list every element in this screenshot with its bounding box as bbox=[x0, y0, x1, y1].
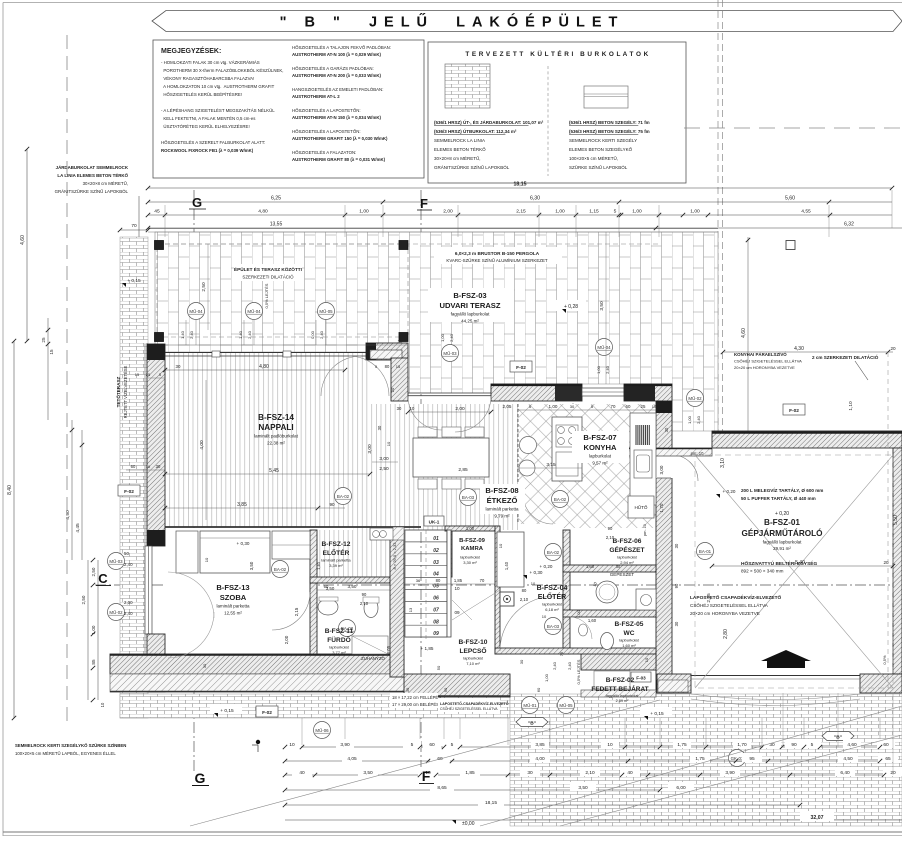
svg-text:3,90: 3,90 bbox=[340, 742, 350, 748]
dim room edges row mid bbox=[317, 589, 390, 591]
dim nappali 5,45 bbox=[165, 473, 370, 475]
furdo shower bbox=[352, 636, 388, 654]
label konyha bbox=[572, 431, 629, 463]
svg-text:F-02: F-02 bbox=[789, 408, 799, 414]
svg-text:ELŐTÉR: ELŐTÉR bbox=[323, 548, 350, 557]
svg-text:2,00: 2,00 bbox=[124, 600, 133, 605]
dim nappali vertical 4,00 bbox=[205, 380, 207, 520]
marker MU-03 west bbox=[108, 553, 125, 570]
svg-text:GÉPJÁRMŰTÁROLÓ: GÉPJÁRMŰTÁROLÓ bbox=[742, 527, 824, 538]
svg-text:8,40: 8,40 bbox=[7, 485, 13, 495]
dim corridor row bbox=[404, 583, 495, 585]
dim top row3 bbox=[148, 214, 892, 216]
dim left 8,40 bbox=[13, 341, 15, 718]
wall west exterior bbox=[147, 344, 165, 546]
B tag bottom bbox=[516, 718, 548, 727]
svg-text:2,40: 2,40 bbox=[567, 661, 572, 670]
terrace top edge lines bbox=[148, 228, 718, 230]
svg-text:fagyálló lapburkolat: fagyálló lapburkolat bbox=[451, 312, 491, 317]
wall eloter12 fured divider bbox=[310, 577, 390, 583]
svg-text:pm: 10: pm: 10 bbox=[691, 451, 704, 456]
svg-text:4,90: 4,90 bbox=[65, 510, 71, 520]
garage dashed rect bbox=[695, 455, 893, 688]
svg-text:2,40: 2,40 bbox=[124, 611, 133, 616]
svg-text:04: 04 bbox=[433, 572, 439, 578]
marker BA-03 eloter2 bbox=[545, 618, 562, 635]
wall konyha north A bbox=[491, 384, 582, 401]
marker BA-03 etkezo bbox=[460, 489, 477, 506]
dim left 25 15 bbox=[47, 318, 49, 420]
svg-text:06: 06 bbox=[433, 596, 439, 602]
garage dim extensions below bbox=[782, 693, 784, 747]
svg-text:10: 10 bbox=[146, 464, 151, 469]
svg-text:30: 30 bbox=[397, 406, 402, 411]
paving left brick band bbox=[120, 237, 148, 718]
eloter cabinet bbox=[497, 532, 524, 587]
svg-text:laminált parketta: laminált parketta bbox=[321, 558, 351, 563]
svg-text:1,75: 1,75 bbox=[695, 756, 705, 762]
svg-text:A HOMLOKZATON 10 cm vtg. AUST: A HOMLOKZATON 10 cm vtg. AUSTROTHERM GRA… bbox=[161, 84, 275, 89]
marker MU-05 terrace bbox=[318, 303, 335, 320]
title banner bbox=[152, 11, 902, 32]
svg-text:2,10: 2,10 bbox=[585, 770, 595, 776]
svg-text:12,55 m²: 12,55 m² bbox=[224, 611, 242, 616]
svg-text:100×20×5 cm MÉRETŰ LAPBÓL, EGY: 100×20×5 cm MÉRETŰ LAPBÓL, EGYENES ÉLLEL bbox=[15, 751, 116, 756]
svg-text:MŰ-03: MŰ-03 bbox=[443, 351, 457, 356]
svg-text:6,00: 6,00 bbox=[676, 785, 686, 791]
svg-text:1,15: 1,15 bbox=[589, 209, 599, 215]
wall west lower piece bbox=[147, 634, 165, 692]
svg-text:30: 30 bbox=[156, 464, 161, 469]
svg-text:3,90: 3,90 bbox=[725, 770, 735, 776]
svg-text:AUSTROTHERM AT-L 2: AUSTROTHERM AT-L 2 bbox=[292, 94, 340, 99]
pergola post 1 bbox=[155, 241, 164, 250]
svg-text:ÉTKEZŐ: ÉTKEZŐ bbox=[487, 496, 518, 505]
dim left 4,90 4,45 bbox=[71, 420, 73, 560]
wall fedett bejarat south edge bbox=[581, 690, 656, 697]
svg-text:B-FSZ-06: B-FSZ-06 bbox=[613, 538, 642, 545]
svg-text:KVARC-SZÜRKE SZÍNŰ ALUMÍNIUM S: KVARC-SZÜRKE SZÍNŰ ALUMÍNIUM SZERKEZET bbox=[446, 258, 547, 263]
wall szoba east bbox=[310, 530, 317, 654]
svg-text:10: 10 bbox=[542, 614, 547, 619]
svg-text:B-FSZ-12: B-FSZ-12 bbox=[322, 541, 351, 548]
paving swatch bricks bbox=[445, 64, 490, 108]
svg-text:lapburkolat: lapburkolat bbox=[463, 656, 483, 661]
svg-text:MŰ-04: MŰ-04 bbox=[597, 345, 611, 350]
svg-text:laminált parketta: laminált parketta bbox=[485, 507, 519, 512]
label etkezo bbox=[480, 484, 525, 514]
wc toilet bbox=[601, 633, 614, 650]
svg-text:B-FSZ-04: B-FSZ-04 bbox=[537, 585, 568, 592]
wall fedett bejarat north bbox=[581, 652, 656, 670]
svg-text:3,77 m²: 3,77 m² bbox=[332, 650, 346, 655]
svg-text:6,18 m²: 6,18 m² bbox=[545, 607, 559, 612]
svg-text:AUSTROTHERM AT-N 200 (λ = 0,03: AUSTROTHERM AT-N 200 (λ = 0,033 W/mK) bbox=[292, 73, 381, 78]
furdo washbasin bbox=[318, 599, 338, 615]
svg-text:6,32: 6,32 bbox=[844, 222, 854, 228]
level mark +0,15 left bbox=[210, 704, 242, 714]
marker MU-04 terrace 2 bbox=[246, 303, 263, 320]
svg-text:65: 65 bbox=[885, 756, 891, 762]
szoba bed bbox=[200, 531, 270, 573]
svg-text:B-FSZ-13: B-FSZ-13 bbox=[216, 583, 249, 592]
svg-text:44,25 m²: 44,25 m² bbox=[461, 319, 479, 324]
svg-text:KAMRA: KAMRA bbox=[461, 546, 484, 552]
fo2 tag right bbox=[783, 404, 805, 415]
wall corridor east bbox=[495, 526, 500, 654]
dim left lower chain bbox=[87, 560, 89, 700]
svg-text:UK-1: UK-1 bbox=[429, 520, 440, 525]
svg-text:MŰ-04: MŰ-04 bbox=[189, 309, 203, 314]
svg-text:B-FSZ-07: B-FSZ-07 bbox=[583, 433, 616, 442]
svg-text:B-FSZ-02: B-FSZ-02 bbox=[606, 677, 635, 684]
svg-text:B-FSZ-05: B-FSZ-05 bbox=[615, 621, 644, 628]
svg-text:18,15: 18,15 bbox=[485, 800, 497, 806]
wall wc south bbox=[495, 648, 656, 654]
wall furdo east / stairs west bbox=[390, 530, 404, 677]
svg-text:GÉPÉSZET: GÉPÉSZET bbox=[609, 545, 644, 554]
marker BA-02 szoba bbox=[272, 561, 289, 578]
svg-text:1,00: 1,00 bbox=[596, 365, 601, 374]
svg-text:(536/3 HRSZ) ÚTBURKOLAT: 112,3: (536/3 HRSZ) ÚTBURKOLAT: 112,34 m² bbox=[434, 128, 517, 134]
svg-text:F-03: F-03 bbox=[636, 676, 646, 681]
svg-text:ROCKWOOL FIXROCK FB1 (λ = 0,03: ROCKWOOL FIXROCK FB1 (λ = 0,039 W/mK) bbox=[161, 148, 254, 153]
svg-text:KONYHAI PÁRAELSZÍVÓ: KONYHAI PÁRAELSZÍVÓ bbox=[734, 352, 787, 357]
svg-text:B-FSZ-11: B-FSZ-11 bbox=[325, 628, 354, 635]
svg-text:+ 0,30: + 0,30 bbox=[530, 570, 543, 575]
svg-text:90: 90 bbox=[791, 742, 797, 748]
fedett bejarat door mat bbox=[594, 671, 630, 689]
marker BA-02 eloter bbox=[545, 544, 562, 561]
svg-text:(536/1 HRSZ) BETON SZEGÉLY: 71: (536/1 HRSZ) BETON SZEGÉLY: 71 fm bbox=[569, 118, 650, 125]
pavings box TERVEZETT KULTERI BURKOLATOK bbox=[428, 42, 686, 183]
etkezo table bbox=[413, 438, 489, 477]
svg-text:25: 25 bbox=[41, 337, 46, 343]
double dashed boundary right bbox=[717, 0, 719, 431]
svg-text:+ 0,15: + 0,15 bbox=[127, 278, 141, 284]
svg-text:10: 10 bbox=[204, 557, 209, 562]
extension lines bottom bbox=[301, 718, 303, 745]
svg-text:90: 90 bbox=[362, 592, 367, 597]
svg-text:2,00: 2,00 bbox=[443, 209, 453, 215]
svg-text:70: 70 bbox=[611, 404, 616, 409]
svg-text:10: 10 bbox=[644, 657, 649, 662]
svg-text:POROTHERM 30 X-therm FALAZÓBLO: POROTHERM 30 X-therm FALAZÓBLOKKBÓL KÉSZ… bbox=[161, 68, 283, 73]
svg-text:F-02: F-02 bbox=[262, 710, 272, 716]
svg-text:VÉKONY RAGASZTÓHABARCSBA FALAZ: VÉKONY RAGASZTÓHABARCSBA FALAZVA! bbox=[161, 76, 254, 81]
svg-text:AUSTROTHERM AT-N 150 (λ = 0,03: AUSTROTHERM AT-N 150 (λ = 0,034 W/mK) bbox=[292, 115, 381, 120]
svg-text:60: 60 bbox=[429, 742, 435, 748]
label lepcso note bbox=[390, 693, 438, 708]
svg-text:BA-02: BA-02 bbox=[274, 567, 287, 572]
svg-text:3,50: 3,50 bbox=[363, 770, 373, 776]
wall garage southeast bbox=[860, 674, 902, 693]
dim left 4,60 bbox=[26, 149, 28, 341]
curb swatch bbox=[584, 86, 628, 108]
svg-text:ÉPÜLET ÉS TERASZ KÖZÖTTI: ÉPÜLET ÉS TERASZ KÖZÖTTI bbox=[234, 265, 302, 272]
garage entry arrow bbox=[761, 650, 811, 668]
svg-text:5,45: 5,45 bbox=[269, 468, 279, 474]
svg-text:10: 10 bbox=[386, 441, 391, 446]
svg-text:30: 30 bbox=[570, 404, 575, 409]
svg-text:4,05: 4,05 bbox=[347, 756, 357, 762]
svg-text:0,5% LEJTÉS: 0,5% LEJTÉS bbox=[576, 659, 581, 684]
big diagonals over paving bbox=[190, 700, 660, 826]
svg-text:1,85: 1,85 bbox=[454, 578, 463, 583]
svg-text:1,40: 1,40 bbox=[316, 561, 321, 570]
svg-text:BA-02: BA-02 bbox=[554, 497, 567, 502]
glass wall nappali north bbox=[165, 352, 366, 354]
wall garage north bbox=[712, 431, 902, 448]
svg-text:1,70: 1,70 bbox=[659, 503, 664, 512]
svg-text:1,05: 1,05 bbox=[386, 645, 391, 654]
svg-text:2 cm SZERKEZETI DILATÁCIÓ: 2 cm SZERKEZETI DILATÁCIÓ bbox=[812, 353, 879, 360]
svg-text:17 × 29,00 cm BELÉPÉS: 17 × 29,00 cm BELÉPÉS bbox=[392, 702, 439, 707]
svg-text:1,00: 1,00 bbox=[549, 404, 558, 409]
svg-text:MŰ-06: MŰ-06 bbox=[315, 728, 329, 733]
svg-text:70: 70 bbox=[131, 223, 137, 229]
label pergola note bbox=[434, 247, 562, 264]
svg-text:2,15: 2,15 bbox=[294, 607, 299, 616]
svg-text:5,50: 5,50 bbox=[893, 515, 899, 525]
svg-text:0,5%: 0,5% bbox=[882, 655, 887, 665]
svg-text:+ 0,20: + 0,20 bbox=[775, 511, 789, 517]
svg-text:HANGSZIGETELÉS AZ EMELETI PADL: HANGSZIGETELÉS AZ EMELETI PADLÓBAN: bbox=[292, 87, 383, 92]
svg-text:HŐSZIGETELÉS KERÜL BEÉPÍTÉSRE!: HŐSZIGETELÉS KERÜL BEÉPÍTÉSRE! bbox=[161, 92, 242, 97]
svg-text:6,0×2,3 m BRUSTOR B-150 PERGOL: 6,0×2,3 m BRUSTOR B-150 PERGOLA bbox=[455, 251, 540, 256]
eloter entry arc bbox=[500, 596, 555, 651]
svg-text:2,50: 2,50 bbox=[91, 567, 96, 576]
svg-text:CSŐHÉJ SZIGETELÉSSEL ELLÁTVA: CSŐHÉJ SZIGETELÉSSEL ELLÁTVA bbox=[690, 602, 769, 608]
etkezo chairs bottom bbox=[418, 479, 437, 489]
konyha tile diamond hatch bbox=[518, 404, 656, 528]
label laposteto left bbox=[438, 698, 500, 712]
svg-text:6,40: 6,40 bbox=[840, 770, 850, 776]
svg-text:95: 95 bbox=[749, 756, 755, 762]
svg-text:HŐSZIGETELÉS A SZERELT FALBURK: HŐSZIGETELÉS A SZERELT FALBURKOLAT ALATT… bbox=[161, 140, 265, 145]
svg-text:WC: WC bbox=[624, 630, 635, 637]
svg-text:KONYHA: KONYHA bbox=[584, 443, 617, 452]
svg-text:9,57 m²: 9,57 m² bbox=[592, 461, 608, 466]
svg-text:SEMMELROCK KERTI SZEGÉLYKŐ SZÜ: SEMMELROCK KERTI SZEGÉLYKŐ SZÜRKE SZÍNBE… bbox=[15, 743, 126, 748]
svg-text:SEMMELROCK LA LINIA: SEMMELROCK LA LINIA bbox=[434, 138, 485, 143]
svg-text:TETŐTERASZ: TETŐTERASZ bbox=[115, 376, 121, 407]
wall south outer skin bbox=[110, 674, 406, 692]
svg-text:20: 20 bbox=[890, 346, 896, 351]
svg-text:1,60 m²: 1,60 m² bbox=[622, 643, 636, 648]
garage floor cross bbox=[695, 455, 893, 688]
svg-text:MŰ-05: MŰ-05 bbox=[559, 703, 573, 708]
svg-text:laminált padlóburkolat: laminált padlóburkolat bbox=[254, 434, 299, 439]
svg-text:1,00: 1,00 bbox=[544, 673, 549, 682]
svg-text:HŐSZIGETELÉS A LAPOSTETŐN:: HŐSZIGETELÉS A LAPOSTETŐN: bbox=[292, 129, 361, 134]
wall garage connector bbox=[570, 448, 712, 456]
svg-text:HŐSZIGETELÉS A GARÁZS PADLÓBAN: HŐSZIGETELÉS A GARÁZS PADLÓBAN: bbox=[292, 66, 374, 71]
marker MU-04 terrace 1 bbox=[188, 303, 205, 320]
wall garage east bbox=[893, 448, 902, 674]
svg-text:+ 0,20: + 0,20 bbox=[723, 489, 736, 494]
svg-text:+ 0,28: + 0,28 bbox=[564, 304, 578, 310]
property line dashed left bbox=[66, 35, 68, 726]
wc door arc bbox=[570, 617, 592, 639]
gepeszet boiler bbox=[596, 581, 618, 603]
svg-text:60: 60 bbox=[883, 742, 889, 748]
konyha stove bbox=[556, 425, 578, 447]
door arc east passage bbox=[672, 455, 698, 481]
svg-text:CSŐHÉJ SZIGETELÉSSEL ELLÁTVA: CSŐHÉJ SZIGETELÉSSEL ELLÁTVA bbox=[440, 706, 498, 711]
marker BA-02 konyha bbox=[552, 491, 569, 508]
svg-text:4,60: 4,60 bbox=[20, 235, 26, 245]
svg-text:lapburkolat: lapburkolat bbox=[617, 555, 637, 560]
svg-text:08: 08 bbox=[433, 619, 439, 625]
svg-text:B-FSZ-03: B-FSZ-03 bbox=[453, 291, 486, 300]
svg-text:MŰ-02: MŰ-02 bbox=[688, 396, 702, 401]
svg-text:F: F bbox=[420, 196, 428, 211]
konyha island bbox=[552, 417, 582, 481]
marker MU-06 bottom bbox=[314, 722, 331, 739]
svg-text:30: 30 bbox=[176, 364, 181, 369]
paving bottom strip bbox=[120, 694, 510, 718]
svg-text:3,00: 3,00 bbox=[659, 465, 664, 474]
svg-text:5: 5 bbox=[411, 742, 414, 748]
wall wc north bbox=[563, 610, 656, 617]
svg-text:ÚSZTATÓRÉTEG KERÜL ELHELYEZÉSR: ÚSZTATÓRÉTEG KERÜL ELHELYEZÉSRE! bbox=[161, 124, 250, 129]
svg-text:02: 02 bbox=[433, 548, 439, 554]
svg-text:8 × 29,0 = 2,32: 8 × 29,0 = 2,32 bbox=[392, 542, 397, 570]
dim mu pairs terrace bbox=[185, 320, 187, 345]
svg-text:ELEMES BETON SZEGÉLYKŐ: ELEMES BETON SZEGÉLYKŐ bbox=[569, 146, 633, 152]
konyha door arc bbox=[523, 494, 553, 524]
svg-text:10: 10 bbox=[100, 702, 105, 707]
svg-text:85: 85 bbox=[91, 659, 96, 665]
svg-text:SZERKEZETI DILATÁCIÓ: SZERKEZETI DILATÁCIÓ bbox=[242, 275, 294, 280]
svg-text:1,40: 1,40 bbox=[180, 330, 185, 339]
svg-text:09: 09 bbox=[433, 631, 439, 637]
garage inner dim 5.40 bbox=[712, 565, 893, 567]
svg-text:2,50: 2,50 bbox=[379, 466, 389, 472]
svg-text:4,00: 4,00 bbox=[199, 440, 205, 450]
etkezo chairs top bbox=[418, 427, 437, 437]
svg-text:18 × 17,22 cm FELLÉPÉS: 18 × 17,22 cm FELLÉPÉS bbox=[392, 695, 441, 700]
furdo toilet bbox=[364, 599, 378, 618]
svg-text:F: F bbox=[422, 768, 431, 784]
svg-text:3,10: 3,10 bbox=[720, 458, 726, 468]
pergola post 4 bbox=[399, 333, 408, 342]
svg-text:MŰ-05: MŰ-05 bbox=[319, 309, 333, 314]
svg-text:2,40: 2,40 bbox=[449, 333, 454, 342]
svg-text:01: 01 bbox=[433, 536, 439, 542]
wall szoba north bbox=[165, 526, 421, 528]
svg-text:6,25: 6,25 bbox=[271, 196, 281, 202]
svg-text:BA-02: BA-02 bbox=[337, 494, 350, 499]
pergola outline dashed bbox=[157, 244, 408, 337]
nappali parquet stripes bbox=[165, 353, 370, 527]
svg-text:15: 15 bbox=[652, 404, 657, 409]
label udvari terasz bbox=[428, 288, 514, 322]
svg-text:1,70: 1,70 bbox=[737, 742, 747, 748]
stairs treads bbox=[405, 529, 447, 531]
svg-text:50: 50 bbox=[124, 551, 129, 556]
svg-text:1,00: 1,00 bbox=[359, 209, 369, 215]
svg-text:1,40: 1,40 bbox=[238, 330, 243, 339]
svg-text:GRÁNITSZÜRKE SZÍNŰ LAPOKBÓL: GRÁNITSZÜRKE SZÍNŰ LAPOKBÓL bbox=[434, 164, 510, 170]
konyha east counter bbox=[630, 413, 656, 505]
dashed horizontal boundary top right bbox=[684, 127, 902, 129]
svg-text:20×20 cm HORONYBA VEZETVE: 20×20 cm HORONYBA VEZETVE bbox=[690, 611, 760, 616]
etkezo parquet stripes bbox=[353, 404, 518, 530]
dim top small 70 bbox=[120, 229, 148, 231]
svg-text:5: 5 bbox=[159, 373, 161, 377]
svg-text:2,10: 2,10 bbox=[606, 535, 615, 540]
svg-text:3,85: 3,85 bbox=[237, 502, 247, 508]
svg-text:2,05: 2,05 bbox=[503, 404, 512, 409]
svg-text:ELŐTÉR: ELŐTÉR bbox=[538, 592, 566, 601]
svg-text:AUSTROTHERM GRAFIT 150 (λ = 0,: AUSTROTHERM GRAFIT 150 (λ = 0,030 W/mK) bbox=[292, 136, 388, 141]
svg-text:4,45: 4,45 bbox=[75, 523, 81, 533]
svg-text:2,15: 2,15 bbox=[516, 209, 526, 215]
svg-text:ELEMES BETON TÉRKŐ: ELEMES BETON TÉRKŐ bbox=[434, 146, 486, 152]
svg-text:±0,00: ±0,00 bbox=[462, 821, 475, 827]
svg-text:30: 30 bbox=[674, 543, 679, 548]
svg-text:30: 30 bbox=[398, 339, 403, 344]
entry step marks bbox=[658, 680, 688, 692]
svg-text:60: 60 bbox=[626, 404, 631, 409]
svg-text:3,50: 3,50 bbox=[249, 561, 254, 570]
marker MU-05 bottom bbox=[558, 697, 575, 714]
svg-text:200 L MELEGVÍZ TARTÁLY, Ø 600: 200 L MELEGVÍZ TARTÁLY, Ø 600 mm bbox=[741, 486, 823, 493]
svg-text:B-FSZ-14: B-FSZ-14 bbox=[258, 413, 294, 422]
axis G vertical dash-dot bbox=[193, 190, 195, 772]
svg-text:80: 80 bbox=[436, 578, 441, 583]
svg-text:GÉPÉSZET: GÉPÉSZET bbox=[610, 571, 635, 577]
svg-text:B-FSZ-10: B-FSZ-10 bbox=[459, 639, 488, 646]
dim top row2 bbox=[148, 201, 892, 203]
wall gepeszet north bbox=[563, 565, 656, 572]
svg-text:pm. 10: pm. 10 bbox=[643, 524, 647, 536]
svg-text:BA-03: BA-03 bbox=[462, 495, 475, 500]
svg-text:1,00: 1,00 bbox=[466, 526, 475, 531]
svg-text:32,07: 32,07 bbox=[811, 815, 824, 821]
svg-text:G: G bbox=[195, 770, 206, 786]
svg-text:70: 70 bbox=[480, 578, 485, 583]
svg-text:MEGJEGYZÉSEK:: MEGJEGYZÉSEK: bbox=[161, 46, 221, 55]
dim nappali 3,85 90 bbox=[165, 507, 345, 509]
svg-text:SEMMELROCK KERTI SZEGÉLY: SEMMELROCK KERTI SZEGÉLY bbox=[569, 137, 637, 143]
svg-text:BA-02: BA-02 bbox=[547, 550, 560, 555]
svg-text:B-FSZ-08: B-FSZ-08 bbox=[485, 486, 518, 495]
svg-text:2,40: 2,40 bbox=[189, 330, 194, 339]
svg-text:1,10: 1,10 bbox=[848, 401, 854, 411]
svg-text:1,00: 1,00 bbox=[555, 209, 565, 215]
marker MU-04 kitchen bbox=[596, 339, 613, 356]
stairs walk line bbox=[425, 530, 427, 640]
svg-text:C: C bbox=[98, 571, 108, 586]
window west szoba bbox=[145, 546, 152, 634]
svg-text:+ 0,20: + 0,20 bbox=[540, 564, 553, 569]
konyha radiator barcode bbox=[636, 425, 649, 445]
svg-text:30×20×8 cm MÉRETŰ,: 30×20×8 cm MÉRETŰ, bbox=[83, 181, 128, 186]
svg-text:2,40: 2,40 bbox=[124, 562, 133, 567]
dim konyha row bbox=[518, 409, 656, 411]
svg-text:lapburkolat: lapburkolat bbox=[589, 454, 612, 459]
svg-text:13: 13 bbox=[408, 607, 413, 612]
svg-text:1,40: 1,40 bbox=[504, 561, 509, 570]
svg-text:2,40: 2,40 bbox=[696, 415, 701, 424]
svg-text:2,85: 2,85 bbox=[458, 467, 468, 473]
svg-text:(536/3 HRSZ) BETON SZEGÉLY: 75: (536/3 HRSZ) BETON SZEGÉLY: 75 fm bbox=[569, 127, 650, 134]
axis C horizontal dash-dot bbox=[95, 584, 898, 586]
svg-text:FEDETT BEJÁRAT: FEDETT BEJÁRAT bbox=[591, 684, 648, 693]
